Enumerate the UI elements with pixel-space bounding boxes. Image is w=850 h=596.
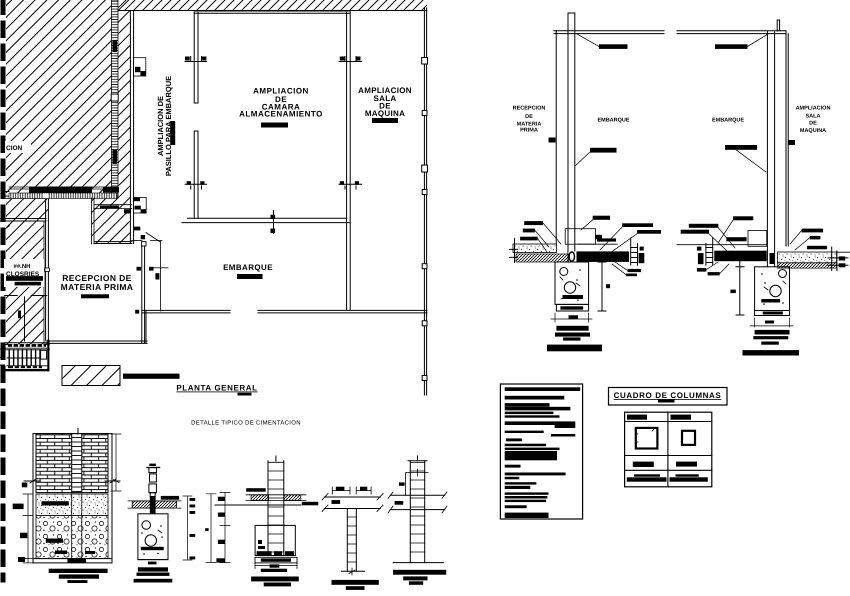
detail4 steps [332, 580, 379, 590]
detail5 steps [393, 563, 446, 585]
section L dim bottom [551, 313, 592, 322]
legend hatched rectangle [62, 366, 120, 386]
wall pasillo left [130, 11, 133, 244]
wall outer right [424, 8, 426, 395]
detail2 dim far right [205, 494, 216, 563]
section R floor stipple [778, 247, 850, 271]
detail2 pedestal [138, 514, 168, 560]
detail1 brick wall [24, 429, 120, 493]
wall camara bottom [182, 218, 350, 222]
svg-text:CION: CION [6, 145, 23, 152]
section R labels below slab [697, 262, 729, 275]
section R mid label [725, 145, 766, 172]
left dashed border [1, 0, 6, 580]
section L plinth box [565, 229, 617, 245]
dimension line stairwell [134, 227, 168, 314]
text embarque plan [223, 263, 273, 279]
wall recepcion left [46, 198, 49, 340]
svg-text:MAQUINA: MAQUINA [800, 128, 826, 134]
detail2 base steps [134, 560, 173, 583]
column marker plan B1 [185, 181, 207, 189]
detail4 dim top [332, 487, 372, 504]
column marker plan C middle [271, 211, 276, 234]
section R labels top left [681, 216, 754, 252]
legend black bar [123, 374, 180, 379]
section R foundation floor slab black [677, 238, 767, 265]
section L floor slab black [577, 238, 645, 265]
section L dim right [598, 252, 610, 311]
notes box [500, 384, 582, 519]
detail3 footing [255, 525, 295, 555]
top hatched wall band [118, 0, 427, 13]
detail3 column ladder [268, 456, 284, 556]
section L pedestal [555, 262, 589, 304]
section R pedestal [755, 267, 790, 311]
svg-text:MATERIA: MATERIA [517, 122, 542, 128]
wall camara left [194, 12, 198, 219]
column section C2 [682, 431, 695, 445]
corner detail box lower [124, 198, 146, 214]
detail1 stones band [36, 516, 108, 559]
svg-text:EMBARQUE: EMBARQUE [223, 263, 273, 272]
section L roof slab [554, 31, 664, 34]
section L text recepcion [513, 105, 556, 142]
section R pedestal base [755, 311, 790, 316]
wall lines below band left [0, 219, 46, 222]
detail1 dim right [111, 434, 121, 491]
svg-text:EMBARQUE: EMBARQUE [597, 118, 629, 124]
svg-text:AMPLIACION: AMPLIACION [796, 106, 831, 112]
section L labels right [581, 216, 661, 253]
section L pedestal base [556, 304, 588, 311]
section L footing steps [547, 326, 602, 352]
section R roof label [715, 34, 768, 49]
detail1 dim left [13, 483, 33, 563]
stairs [0, 340, 49, 372]
section L foundation floor stipple [510, 239, 569, 263]
section R column [767, 20, 788, 267]
section L column [556, 13, 577, 262]
svg-text:SALA: SALA [806, 114, 821, 120]
section L text embarque [597, 118, 629, 124]
wall camara right [347, 12, 351, 310]
section R roof slab [677, 31, 786, 34]
detail1 stipple band [36, 494, 108, 516]
notes text bars [505, 387, 581, 518]
text small left labels [4, 259, 49, 341]
cuadro title box [609, 388, 728, 406]
wall stub recepcion top right [92, 198, 141, 244]
detail3 steps [251, 557, 299, 586]
column marker plan A2 [339, 57, 362, 62]
svg-text:DE: DE [525, 114, 533, 120]
section L labels below slab [612, 262, 641, 276]
section L labels left [520, 221, 561, 252]
section R dim bottom [750, 318, 793, 327]
text pasillo vertical [156, 76, 175, 176]
column section C1 [636, 428, 658, 449]
section R dim left [730, 254, 744, 315]
section R labels top right [790, 229, 827, 250]
section L mid label [575, 148, 617, 166]
section R plinth box [748, 231, 767, 247]
section R text embarque [712, 118, 744, 124]
detail4 column ladder [342, 509, 365, 576]
text camara almacenamiento [239, 87, 323, 128]
existing building hatch area [6, 0, 132, 345]
svg-text:EMBARQUE: EMBARQUE [712, 118, 744, 124]
svg-text:MATERIA PRIMA: MATERIA PRIMA [61, 282, 134, 292]
svg-text:PLANTA GENERAL: PLANTA GENERAL [176, 384, 257, 393]
section R text sala maquina [788, 106, 830, 146]
svg-text:DETALLE TIPICO DE CIMENTACION: DETALLE TIPICO DE CIMENTACION [191, 420, 301, 427]
table header bars [627, 415, 691, 420]
wall markers right wall [422, 58, 428, 381]
hatched wall strip (plan left wall) [111, 0, 118, 198]
svg-text:CUADRO DE COLUMNAS: CUADRO DE COLUMNAS [614, 391, 722, 400]
svg-text:PRIMA: PRIMA [520, 128, 538, 134]
text recepcion materia prima [61, 273, 134, 298]
section L roof label [577, 34, 628, 49]
detail1 base [33, 434, 112, 563]
detail4 beam lines [322, 494, 383, 512]
detail5 beam lines [388, 492, 447, 513]
detail5 dim [395, 469, 428, 505]
wall band recepcion top [5, 187, 119, 230]
corner detail box upper [134, 58, 146, 76]
wall embarque bottom [142, 310, 427, 313]
detail1 steps [49, 569, 108, 583]
wall to stairs [46, 311, 147, 343]
detail2 column shaft [147, 464, 179, 500]
detail2 floor strip [128, 497, 181, 514]
section R footing steps [743, 330, 800, 356]
title planta general [176, 384, 257, 396]
column marker plan B2 [339, 181, 362, 189]
title detalle cimentacion [191, 420, 301, 427]
svg-text:DE: DE [809, 121, 817, 127]
text sala maquina [358, 86, 412, 123]
column marker plan A1 [185, 57, 207, 62]
detail3 floor [215, 488, 318, 505]
svg-text:RECEPCION: RECEPCION [513, 105, 546, 111]
svg-text:##.NH: ##.NH [14, 263, 31, 270]
svg-text:ALMACENAMIENTO: ALMACENAMIENTO [239, 110, 323, 119]
detail3 dim left [216, 492, 230, 562]
column table grid [625, 412, 712, 487]
detail2 dim mid [183, 496, 195, 560]
text cion small [5, 141, 31, 153]
detail5 column ladder [408, 456, 427, 563]
table row4 bars [627, 474, 708, 481]
table row3 bars [633, 462, 697, 467]
wall stairwell vertical [132, 241, 145, 344]
svg-text:MAQUINA: MAQUINA [365, 109, 405, 118]
